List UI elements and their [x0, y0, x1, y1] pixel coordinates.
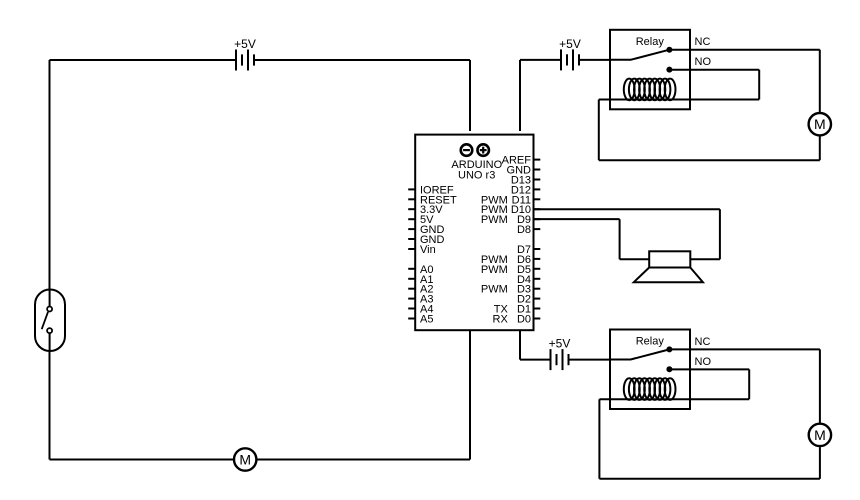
svg-text:Relay: Relay	[636, 336, 665, 348]
svg-text:+5V: +5V	[234, 37, 256, 51]
wire to battery B2	[520, 59, 561, 61]
wire K2 NO contact branch	[669, 368, 749, 370]
wire up from coil line to K1 NO branch	[758, 70, 760, 100]
svg-text:NC: NC	[695, 336, 711, 348]
U1 pin D2	[517, 294, 540, 306]
U1 pin D12	[511, 184, 540, 196]
svg-text:+5V: +5V	[549, 337, 571, 351]
Arduino U1 body (ARDUINO UNO r3)	[415, 135, 533, 331]
wire from motor M2 to riser	[257, 459, 470, 461]
battery B2 +5V (top right)	[561, 49, 579, 70]
U1 pin D9 (PWM)	[481, 214, 540, 226]
svg-text:M: M	[814, 427, 826, 443]
wire U1 D9 toward speaker	[534, 218, 620, 220]
switch S1 capsule outline	[35, 290, 65, 352]
relay K2 (bottom)	[610, 330, 690, 410]
wire K1 NC contact to motor M1 drop	[669, 49, 819, 51]
relay K1 (top)	[610, 30, 690, 110]
wire from battery B2 to relay K1	[579, 59, 610, 61]
U1 pin 5V	[408, 214, 434, 226]
U1 pin RESET	[408, 194, 457, 206]
wire from Arduino bottom pin down (to +5V battery B3)	[519, 331, 521, 360]
U1 pin GND	[507, 165, 541, 177]
svg-text:NC: NC	[695, 36, 711, 48]
speaker LS1	[634, 251, 703, 282]
battery B3 +5V (bottom right)	[551, 349, 569, 370]
wire riser up to Arduino bottom-left pin	[469, 331, 471, 460]
svg-text:PWM: PWM	[481, 284, 508, 296]
K1 (top) coil	[624, 79, 676, 101]
U1 pin D8	[517, 224, 540, 236]
wire from motor M3 down	[819, 447, 821, 479]
U1 pin 3.3V	[408, 204, 443, 216]
wire up to K2 coil line	[598, 399, 600, 479]
wire to battery B3	[520, 359, 551, 361]
U1 pin A5	[408, 314, 433, 326]
Arduino logo (minus / plus circles)	[461, 144, 489, 156]
U1 pin A1	[408, 274, 433, 286]
svg-text:Vin: Vin	[420, 244, 436, 256]
K2 (bottom) NO contact dot	[666, 366, 672, 372]
U1 pin GND	[408, 224, 444, 236]
U1 pin D10 (PWM)	[481, 204, 540, 216]
U1 pin D13	[511, 175, 540, 187]
K1 (top) NO contact dot	[666, 67, 672, 73]
svg-text:Relay: Relay	[636, 36, 665, 48]
wire bottom of K2 loop	[599, 478, 820, 480]
wire up from coil line to K2 NO branch	[748, 369, 750, 399]
relay K1 (top) body	[610, 30, 690, 110]
U1 pin D6 (PWM)	[481, 254, 540, 266]
svg-text:A5: A5	[420, 314, 433, 326]
K1 (top) NC contact dot	[666, 47, 672, 53]
relay K2 (bottom) body	[610, 330, 690, 410]
U1 pin Vin	[408, 244, 436, 256]
U1 pin D4	[517, 274, 540, 286]
svg-text:NO: NO	[695, 56, 712, 68]
motor M3 (bottom right)	[809, 424, 831, 446]
wire from battery B1 right terminal toward Arduino top pin	[254, 59, 470, 61]
svg-text:D0: D0	[517, 314, 531, 326]
U1 pin A2	[408, 284, 433, 296]
U1 pin A4	[408, 304, 433, 316]
wire bottom-left to motor M2	[50, 459, 234, 461]
U1 pin D0 (RX)	[493, 314, 541, 326]
K2 (bottom) coil	[624, 378, 676, 400]
svg-text:RX: RX	[493, 314, 509, 326]
svg-text:D8: D8	[517, 224, 531, 236]
battery B1 +5V (top left)	[236, 50, 254, 71]
switch S1 top contact	[47, 307, 52, 312]
K1 (top) common lever (switch arm)	[610, 50, 669, 60]
U1 pin GND	[408, 234, 444, 246]
svg-text:PWM: PWM	[481, 214, 508, 226]
U1 pin A0	[408, 264, 433, 276]
wire into speaker left terminal	[620, 258, 650, 260]
svg-text:NO: NO	[695, 356, 712, 368]
wire down at right of speaker LS1	[719, 209, 721, 259]
wire U1 D10 to speaker right side	[534, 208, 720, 210]
wire K2 coil feed line	[599, 398, 749, 400]
wire down from top wire into Arduino top-left pin	[469, 60, 471, 131]
U1 pin D3 (PWM)	[481, 284, 540, 296]
wire from motor M1 down	[819, 136, 821, 160]
wire down to motor M1	[819, 50, 821, 112]
U1 pin D1 (TX)	[494, 304, 541, 316]
svg-text:M: M	[814, 116, 826, 132]
K2 (bottom) NC contact dot	[666, 346, 672, 352]
U1 pin D11 (PWM)	[481, 194, 540, 206]
wire up to K1 coil line	[598, 100, 600, 161]
switch S1 lever (open)	[42, 312, 48, 329]
U1 pin IOREF	[408, 184, 454, 196]
wire K2 NC contact to motor M3 drop	[669, 348, 820, 350]
wire bottom of K1 loop	[599, 159, 820, 161]
K2 (bottom) common lever (switch arm)	[610, 349, 669, 359]
switch S1 terminal stubs	[49, 290, 51, 352]
wire K1 NO contact branch	[669, 69, 759, 71]
svg-text:PWM: PWM	[481, 264, 508, 276]
svg-text:+5V: +5V	[559, 37, 581, 51]
motor M2 (bottom left)	[234, 448, 256, 470]
U1 pin AREF	[502, 155, 541, 167]
svg-text:M: M	[239, 452, 251, 468]
wire down at left of speaker LS1	[619, 219, 621, 259]
motor M1 (top right)	[809, 113, 831, 135]
speaker LS1 cone	[634, 268, 703, 283]
label ARDUINO UNO r3	[451, 159, 502, 182]
switch S1 (push switch, open)	[35, 290, 65, 352]
wire K1 coil feed line	[599, 99, 759, 101]
wire from Arduino top pin up (to +5V battery B2)	[519, 60, 521, 131]
wire from switch S1 down to bottom-left corner	[49, 351, 51, 460]
wire down to motor M3	[819, 349, 821, 422]
U1 pin D5 (PWM)	[481, 264, 540, 276]
U1 pin D7	[517, 244, 540, 256]
wire left side down to switch S1	[49, 60, 51, 290]
switch S1 bottom contact	[47, 328, 52, 333]
wire from +5V battery B1 left terminal to top-left corner	[50, 59, 237, 61]
svg-text:UNO r3: UNO r3	[458, 170, 495, 182]
speaker LS1 driver box	[649, 251, 690, 267]
U1 pin A3	[408, 294, 433, 306]
wire from battery B3 to relay K2	[569, 359, 611, 361]
wire into speaker right terminal	[690, 258, 720, 260]
